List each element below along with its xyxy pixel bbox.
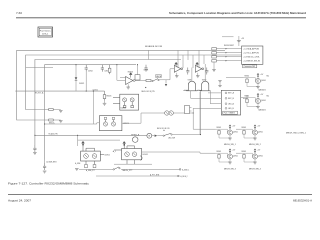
svg-text:Part # GM8 B: Part # GM8 B <box>224 112 236 115</box>
svg-text:+C3 SW_B+_CNTL: +C3 SW_B+_CNTL <box>243 57 260 59</box>
svg-text:A_SIDE_2: A_SIDE_2 <box>181 175 188 178</box>
svg-text:A_SIDE_1: A_SIDE_1 <box>182 168 189 171</box>
svg-text:U0931: U0931 <box>121 108 127 110</box>
svg-text:SPKR_A: SPKR_A <box>131 133 140 136</box>
svg-text:Schematics, Component Location: Schematics, Component Location Diagrams … <box>169 11 306 15</box>
svg-text:C0922: C0922 <box>88 70 93 72</box>
svg-text:A_SIDE: A_SIDE <box>75 162 81 165</box>
svg-text:A_SIDE_NEG: A_SIDE_NEG <box>47 160 58 163</box>
svg-text:LED_SW: LED_SW <box>168 137 175 139</box>
svg-text:Figure 7-127. Controller RX232: Figure 7-127. Controller RX232/GM8M8M8 S… <box>8 181 90 185</box>
svg-text:RX_AUD_RTN: RX_AUD_RTN <box>49 132 59 135</box>
svg-text:MECH_PTT: MECH_PTT <box>123 170 134 172</box>
svg-text:+C4 MECH_SW_IN: +C4 MECH_SW_IN <box>243 61 260 63</box>
svg-text:R0936 R0937: R0936 R0937 <box>224 45 234 47</box>
svg-text:MECH_SW_2: MECH_SW_2 <box>249 144 261 146</box>
svg-text:MECH_SW_LED_SW: MECH_SW_LED_SW <box>157 128 170 130</box>
svg-text:MECH_SW_CONN_1: MECH_SW_CONN_1 <box>286 133 306 135</box>
svg-text:KEY_B: KEY_B <box>228 98 235 100</box>
svg-text:U0951: U0951 <box>105 154 110 156</box>
svg-text:6816532H01-A: 6816532H01-A <box>293 199 312 203</box>
svg-text:+C1 SDA_APPLIN: +C1 SDA_APPLIN <box>243 48 259 51</box>
svg-text:4XX-1: 4XX-1 <box>42 34 49 36</box>
svg-text:LED_A: LED_A <box>228 103 234 106</box>
svg-text:7-60: 7-60 <box>16 11 22 15</box>
svg-text:RX_FLT_A: RX_FLT_A <box>35 92 44 95</box>
svg-text:MECH_SW_4: MECH_SW_4 <box>249 169 261 171</box>
svg-text:Connector M5: Connector M5 <box>244 65 255 68</box>
svg-text:August 24, 2007: August 24, 2007 <box>8 199 32 203</box>
svg-text:R0921: R0921 <box>107 96 112 98</box>
svg-text:MECH_SW_3: MECH_SW_3 <box>224 169 236 171</box>
svg-text:MECH_SW_IN_RTN: MECH_SW_IN_RTN <box>142 91 156 93</box>
svg-text:KEY_A: KEY_A <box>228 92 235 95</box>
svg-text:C0928: C0928 <box>144 69 149 71</box>
svg-text:Part Series: Part Series <box>40 30 52 33</box>
svg-text:A_1: A_1 <box>113 150 116 153</box>
svg-text:R0923: R0923 <box>128 71 133 73</box>
svg-text:+C2 SCL_APPLIN: +C2 SCL_APPLIN <box>243 52 259 55</box>
svg-text:MECHANICAL SW CONN: MECHANICAL SW CONN <box>145 45 163 48</box>
svg-text:LED_B: LED_B <box>228 108 234 110</box>
svg-text:U0941: U0941 <box>143 154 148 156</box>
svg-text:MECH_SW_1: MECH_SW_1 <box>224 144 236 146</box>
svg-text:SW_B+: SW_B+ <box>49 122 55 124</box>
svg-text:D0921: D0921 <box>79 83 84 85</box>
svg-text:MECH: MECH <box>156 76 162 78</box>
